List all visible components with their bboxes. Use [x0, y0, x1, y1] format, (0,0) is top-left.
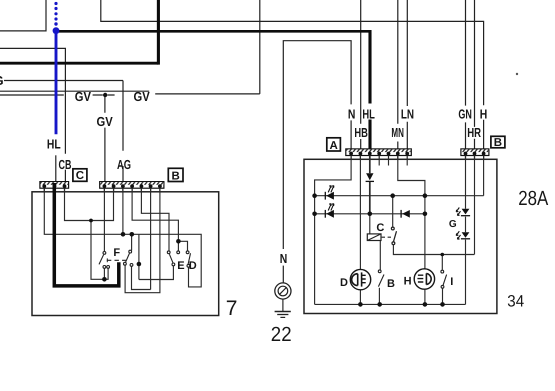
svg-text:HL: HL — [47, 136, 61, 151]
svg-text:7: 7 — [226, 297, 238, 320]
svg-text:HB: HB — [354, 125, 368, 140]
svg-text:34: 34 — [507, 293, 524, 311]
svg-text:B: B — [494, 137, 502, 149]
svg-text:B: B — [387, 278, 395, 290]
svg-text:GN: GN — [458, 106, 472, 121]
svg-text:H: H — [404, 276, 412, 288]
svg-text:A: A — [329, 140, 337, 152]
svg-text:B: B — [171, 170, 179, 182]
svg-text:GV: GV — [75, 89, 91, 104]
svg-text:GV: GV — [134, 89, 150, 104]
svg-text:C: C — [376, 222, 384, 234]
svg-text:D: D — [340, 277, 348, 289]
svg-text:LN: LN — [401, 106, 414, 121]
svg-text:G: G — [449, 219, 457, 230]
svg-text:I: I — [450, 276, 453, 288]
svg-text:28A: 28A — [518, 187, 548, 210]
svg-text:MN: MN — [391, 125, 404, 140]
svg-text:CB: CB — [59, 157, 72, 172]
svg-text:D: D — [189, 260, 197, 272]
svg-text:22: 22 — [271, 323, 292, 346]
svg-text:HR: HR — [467, 125, 481, 140]
svg-text:G: G — [0, 73, 4, 88]
svg-text:H: H — [480, 106, 488, 121]
svg-text:AG: AG — [117, 157, 131, 172]
svg-text:N: N — [280, 251, 288, 266]
svg-text:N: N — [348, 106, 356, 121]
svg-text:GV: GV — [97, 114, 113, 129]
svg-text:F: F — [113, 247, 120, 259]
svg-text:HL: HL — [362, 106, 375, 121]
svg-text:C: C — [76, 170, 84, 182]
svg-text:E: E — [177, 260, 184, 272]
